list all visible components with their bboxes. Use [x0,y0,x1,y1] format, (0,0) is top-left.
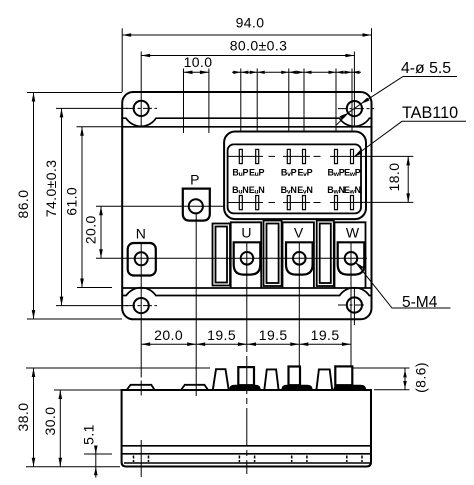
arrows 8.6 [403,370,407,378]
arrows 30 [59,390,63,399]
W bay [335,222,366,287]
U centerline v [246,242,248,352]
mounting hole top-left [134,101,149,116]
svg-text:38.0: 38.0 [15,403,31,432]
V centerline v [298,242,300,366]
U pin side [238,367,254,385]
dim line 30 [59,390,61,467]
W terminal block [338,242,365,274]
tab labels row1 [232,167,360,178]
rail2 side [264,369,278,390]
svg-text:30.0: 30.0 [42,407,58,436]
arrows bottom dims [141,342,150,346]
svg-text:P: P [190,172,200,188]
svg-text:EvP: EvP [297,167,312,178]
tab box inner [228,144,361,213]
svg-text:19.5: 19.5 [207,327,236,343]
svg-text:N: N [136,226,147,242]
W terminal hole [345,252,358,265]
hole centerline h top-right [338,108,374,110]
leader 4-dia5.5 [337,77,457,125]
pin row bottom centerline [228,202,357,204]
leader 5-M4 [356,262,451,308]
svg-text:V: V [294,224,304,240]
P centerline v [195,213,197,396]
dim line 38 [33,368,35,467]
V pin side [289,367,301,386]
P boss [181,385,208,390]
svg-text:EwP: EwP [344,167,361,178]
V terminal hole [293,252,306,265]
N terminal block [128,243,156,276]
rail3 side [316,369,332,390]
TOPVIEW [96,92,374,396]
dim line 61 [81,127,83,288]
svg-text:EuN: EuN [249,185,265,196]
dim line 86 [33,93,35,320]
W centerline v [350,242,352,366]
dim line 5.1 [95,447,97,478]
ext 86 bottom [27,318,122,320]
U bay [231,222,262,287]
ext 38 bottom [26,466,120,468]
arrows 10 [184,71,193,75]
svg-text:5-M4: 5-M4 [402,294,438,311]
dim line 94 [122,34,371,36]
ext 61 bottom [77,287,112,289]
ext 94 right [371,28,373,92]
side line 3 [124,462,371,464]
svg-text:18.0: 18.0 [386,163,402,192]
svg-text:EuP: EuP [249,167,265,178]
hidden hole lines V [292,456,307,463]
hole centerline h top-left [126,107,157,109]
projection N lower [140,440,142,477]
U terminal block [234,242,261,274]
arrows 20 [99,206,103,215]
mounting hole bottom-left [134,298,149,313]
arrows 94 [122,33,131,37]
svg-text:80.0±0.3: 80.0±0.3 [230,38,288,54]
arrows 38 [32,368,36,377]
svg-text:20.0: 20.0 [83,215,99,244]
ext 38 top line [26,367,410,369]
dim line 20 [100,206,102,258]
pin pitch ticks [241,69,352,133]
ext 80 right [353,52,355,127]
N boss [127,385,155,390]
rail mid outer [264,221,282,287]
arrows 61 [80,127,84,136]
rail left inner [216,227,228,283]
rail left outer [213,224,231,286]
ext 61 top [77,126,123,128]
ext 5.1 [84,453,112,455]
rail1 side [213,369,229,390]
ext 30 top [54,389,122,391]
V bay [283,222,314,287]
ext 74 bottom [56,305,128,307]
svg-text:BuP: BuP [232,167,248,178]
arrows 86 [32,93,36,102]
ext 80 left [140,52,142,127]
hole centerline h bottom-left [126,305,157,307]
svg-text:BwN: BwN [327,185,344,196]
U seat [230,385,260,390]
svg-text:19.5: 19.5 [259,327,288,343]
tab box outer [224,132,366,220]
hole centerline h bottom-right [338,304,365,306]
side body outline [122,390,371,467]
hidden hole lines left [134,456,149,463]
svg-text:BuN: BuN [232,185,248,196]
svg-text:EwN: EwN [344,185,361,196]
pin row top centerline [228,155,357,157]
rail right inner [320,224,331,284]
hidden hole lines right [347,456,362,463]
arrows 5.1 outside [94,446,98,455]
svg-text:86.0: 86.0 [15,190,31,219]
hidden hole lines U [239,456,254,463]
svg-text:TAB110: TAB110 [402,104,458,122]
projection U dash-dot [246,356,248,474]
leader TAB110 [356,121,467,155]
dim line 8.6 [404,368,406,390]
P centerline h [96,205,224,207]
svg-text:19.5: 19.5 [311,327,340,343]
mounting hole bottom-right [347,297,362,312]
ext 18 top [356,155,413,157]
P terminal block [183,189,210,221]
dim line 80 [141,55,354,57]
ext 8.6 bottom [374,389,410,391]
V terminal block [286,242,313,274]
svg-text:20.0: 20.0 [154,327,183,343]
side line 2 [122,453,371,455]
SIDEVIEW [122,356,371,477]
bottom dim line [141,343,351,345]
hole centerline v bottom-right [353,289,355,326]
U terminal hole [241,252,254,265]
svg-text:BvN: BvN [281,185,297,196]
ext 10 left [183,69,185,134]
top flange lower line [122,126,371,128]
svg-text:BvP: BvP [281,167,297,178]
ext 86 top [27,92,122,94]
arrows 74 [60,108,64,117]
N centerline v [140,243,142,396]
dim line 10 [184,71,209,73]
svg-text:94.0: 94.0 [236,14,265,30]
terminals centerline h [96,257,367,259]
dim line 18 [407,156,409,202]
tab pins bottom row [239,196,353,210]
mounting hole top-right [347,101,362,116]
ext 94 left [121,28,123,92]
svg-text:5.1: 5.1 [81,424,97,445]
module body outline [122,92,371,319]
svg-text:W: W [346,224,360,240]
top flange upper line with hole bulges [122,118,371,126]
N terminal hole [135,252,148,265]
rail mid inner [267,224,279,284]
tab pins top row [239,149,353,163]
svg-text:BwP: BwP [328,167,345,178]
ext 18 bottom [356,201,413,203]
svg-text:74.0±0.3: 74.0±0.3 [43,160,59,218]
ext 74 top [56,107,128,109]
dim line 74 [61,108,63,305]
ext 10 right [208,69,210,134]
svg-text:U: U [241,224,251,240]
svg-text:(8.6): (8.6) [413,362,429,393]
svg-text:EvN: EvN [297,185,312,196]
arrows 80 [141,54,150,58]
arrows pin pitch [233,71,241,74]
rail right outer [317,221,334,287]
bottom flange lower line with hole bulges [122,288,371,296]
P terminal hole [189,199,203,213]
V seat [282,385,312,390]
arrows 18 [406,156,410,165]
DIMENSIONS [122,28,371,133]
side line 1 [122,445,371,447]
pin pitch dim line [232,71,361,73]
svg-text:4-ø 5.5: 4-ø 5.5 [401,60,451,77]
bottom flange upper line [122,287,371,289]
W pin side [335,366,352,385]
tab labels row2 [232,185,361,196]
svg-text:10.0: 10.0 [184,54,213,70]
W seat [334,385,366,390]
svg-text:61.0: 61.0 [64,187,80,216]
